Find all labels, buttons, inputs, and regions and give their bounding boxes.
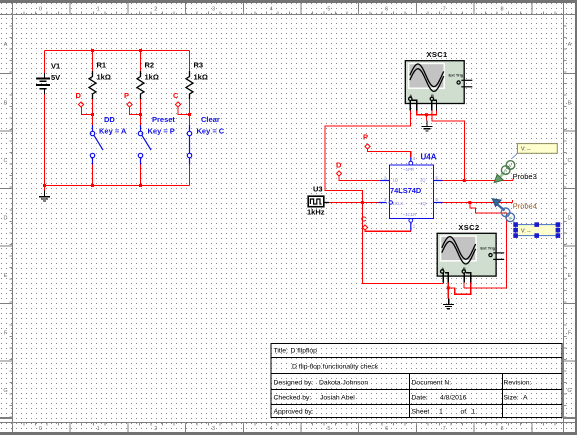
junction [43, 184, 46, 187]
junction [91, 49, 94, 52]
svg-text:B: B [568, 100, 572, 106]
svg-text:R3: R3 [194, 61, 204, 70]
svg-text:5: 5 [327, 7, 330, 13]
wire [82, 107, 93, 114]
svg-text:6: 6 [385, 426, 388, 432]
svg-text:Document N:: Document N: [412, 380, 452, 387]
svg-text:1kΩ: 1kΩ [194, 73, 208, 82]
svg-text:4: 4 [270, 7, 273, 13]
svg-text:D: D [568, 215, 572, 221]
svg-text:1: 1 [439, 409, 443, 416]
svg-text:B: B [4, 100, 8, 106]
wire [189, 51, 191, 72]
svg-text:1D: 1D [393, 178, 399, 183]
svg-text:Date:: Date: [412, 395, 428, 402]
svg-text:Designed by:: Designed by: [274, 380, 314, 387]
svg-text:4: 4 [270, 426, 273, 432]
svg-text:Size:: Size: [504, 395, 519, 402]
switch J2 Preset Key=P [148, 115, 176, 136]
probe Probe3 [494, 144, 557, 183]
wire [44, 186, 46, 191]
battery V1 5V [36, 62, 60, 94]
svg-text:8: 8 [500, 426, 503, 432]
svg-text:Preset: Preset [152, 115, 175, 124]
wire (XSC1 A- B- to ground) [417, 111, 437, 121]
svg-text:Probe3: Probe3 [513, 172, 537, 181]
svg-text:1Q: 1Q [420, 178, 426, 183]
svg-text:V: --: V: -- [521, 147, 531, 153]
probe Probe4 [492, 199, 558, 236]
svg-text:XSC1: XSC1 [426, 50, 447, 59]
junction [139, 113, 142, 116]
svg-text:8: 8 [500, 7, 503, 13]
svg-text:U4A: U4A [421, 153, 437, 162]
svg-text:D flipflop: D flipflop [291, 348, 318, 355]
wire (XSC1 B to Q) [432, 111, 465, 181]
svg-text:G: G [3, 388, 7, 394]
svg-text:Josiah Abel: Josiah Abel [320, 395, 355, 402]
junction [91, 113, 94, 116]
svg-text:of: of [461, 409, 467, 416]
svg-text:A: A [4, 42, 8, 48]
svg-text:D: D [336, 161, 342, 170]
wire (XSC2 terminal leads) [443, 273, 471, 283]
svg-text:D: D [4, 215, 8, 221]
wire [92, 165, 94, 186]
wire (Q output) [443, 178, 514, 180]
svg-text:1: 1 [97, 426, 100, 432]
ground [443, 298, 454, 308]
switch J1 DD Key=A [99, 115, 127, 136]
junction [468, 201, 471, 204]
wire [189, 165, 191, 186]
svg-text:Checked by:: Checked by: [274, 395, 312, 402]
svg-text:Title:: Title: [274, 348, 289, 355]
svg-text:0: 0 [39, 7, 42, 13]
wire [189, 99, 191, 125]
wire [92, 99, 94, 125]
svg-text:D: D [76, 91, 82, 100]
svg-text:3: 3 [212, 7, 215, 13]
wire [44, 94, 46, 186]
svg-text:3: 3 [212, 426, 215, 432]
svg-text:Ext Trig: Ext Trig [480, 245, 495, 250]
svg-text:C: C [568, 158, 572, 164]
svg-text:7: 7 [443, 7, 446, 13]
resistor R3 [186, 61, 208, 100]
svg-text:Sheet: Sheet [412, 409, 430, 416]
svg-text:P: P [124, 91, 129, 100]
resistor R2 [137, 61, 159, 100]
svg-text:U3: U3 [313, 185, 323, 194]
svg-text:6: 6 [385, 7, 388, 13]
svg-text:D flip-flop functionality chec: D flip-flop functionality check [292, 364, 379, 371]
svg-text:Key = P: Key = P [148, 127, 175, 136]
svg-text:E: E [568, 273, 572, 279]
wire [92, 51, 94, 72]
svg-text:2: 2 [154, 426, 157, 432]
junction [91, 184, 94, 187]
svg-text:C: C [173, 91, 179, 100]
svg-text:~1CLR: ~1CLR [403, 212, 417, 217]
oscilloscope XSC2 [437, 223, 504, 276]
svg-text:1kHz: 1kHz [307, 208, 325, 217]
svg-text:E: E [4, 273, 8, 279]
junction [361, 201, 364, 204]
svg-text:5: 5 [327, 426, 330, 432]
junction [425, 113, 428, 116]
node P (on-page connector) [124, 91, 132, 107]
wire [178, 107, 190, 114]
wire (P to ~PRE) [368, 149, 411, 157]
wire (XSC1 A to clock net) [325, 111, 443, 284]
svg-text:~1PR: ~1PR [403, 167, 414, 172]
junction [139, 184, 142, 187]
junction [139, 49, 142, 52]
junction [188, 113, 191, 116]
wire (XSC2 A- B- to ground) [448, 282, 471, 298]
wire (XSC2 B lead) [463, 282, 465, 288]
svg-text:1: 1 [472, 409, 476, 416]
svg-text:5V: 5V [51, 73, 60, 82]
ground [421, 121, 432, 131]
flip-flop U4A 74LS74D [379, 153, 443, 232]
clock source U3 1kHz [307, 185, 329, 217]
wire (D to 1D) [339, 176, 380, 180]
oscilloscope XSC1 [405, 50, 472, 103]
svg-text:Ext Trig: Ext Trig [449, 73, 464, 78]
svg-text:1CLK: 1CLK [393, 201, 404, 206]
svg-text:XSC2: XSC2 [458, 223, 479, 232]
svg-text:Key = A: Key = A [99, 127, 127, 136]
wire [45, 185, 190, 187]
junction [463, 179, 466, 182]
svg-text:Dakota Johnson: Dakota Johnson [319, 380, 368, 387]
svg-text:7: 7 [443, 426, 446, 432]
svg-text:~1Q: ~1Q [418, 201, 427, 206]
wire (clock to CLK pin) [329, 202, 378, 204]
wire [45, 50, 190, 52]
wire [130, 107, 141, 114]
resistor R1 [89, 61, 111, 100]
svg-text:V1: V1 [51, 62, 60, 71]
wire (XSC1 terminal leads) [410, 100, 436, 110]
svg-text:R1: R1 [97, 61, 107, 70]
node P (on-page connector) [363, 133, 370, 150]
svg-text:4/8/2016: 4/8/2016 [440, 395, 467, 402]
svg-text:V: --: V: -- [521, 229, 531, 235]
wire (C to ~CLR) [365, 230, 411, 231]
selection handles (Probe4 box) [513, 222, 560, 238]
svg-text:0: 0 [39, 426, 42, 432]
wire (~Q to XSC2 B) [464, 203, 506, 288]
wire [140, 165, 142, 186]
ground [39, 191, 50, 201]
svg-text:R2: R2 [145, 61, 155, 70]
svg-text:74LS74D: 74LS74D [390, 186, 422, 195]
svg-text:G: G [567, 388, 571, 394]
svg-text:1kΩ: 1kΩ [145, 73, 159, 82]
svg-text:2: 2 [154, 7, 157, 13]
svg-text:A: A [523, 395, 528, 402]
svg-text:C: C [4, 158, 8, 164]
node D (on-page connector) [336, 161, 342, 177]
svg-text:1kΩ: 1kΩ [97, 73, 111, 82]
svg-text:Key = C: Key = C [197, 127, 225, 136]
node C (on-page connector) [173, 91, 181, 107]
svg-text:Revision:: Revision: [504, 380, 532, 387]
wire [44, 51, 46, 74]
svg-text:A: A [568, 42, 572, 48]
svg-text:P: P [363, 133, 368, 142]
switch J3 Clear Key=C [197, 115, 225, 136]
title block [271, 344, 562, 418]
svg-text:DD: DD [104, 115, 115, 124]
svg-text:1: 1 [97, 7, 100, 13]
node D (on-page connector) [76, 91, 84, 107]
svg-text:Approved by:: Approved by: [274, 409, 314, 416]
wire (~Q output) [443, 200, 513, 203]
junction [447, 286, 450, 289]
wire (XSC2 A lead) [442, 281, 444, 284]
svg-text:Clear: Clear [201, 115, 220, 124]
wire [140, 99, 142, 125]
node C (on-page connector) [361, 215, 368, 231]
wire [140, 51, 142, 72]
svg-text:Probe4: Probe4 [513, 202, 537, 211]
